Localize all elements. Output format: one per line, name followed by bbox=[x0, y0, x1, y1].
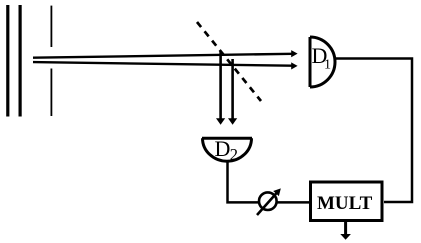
output arrow from MULT bbox=[340, 221, 351, 240]
wire from D1 to MULT (right side) bbox=[335, 59, 412, 203]
phase shifter (circle with diagonal arrow) bbox=[257, 188, 281, 215]
svg-text:1: 1 bbox=[324, 58, 331, 73]
beam ray upper (arrow to D1) bbox=[33, 50, 298, 58]
source plate line 1 bbox=[6, 5, 9, 117]
beam ray lower (arrow to D1) bbox=[33, 62, 298, 69]
svg-text:2: 2 bbox=[230, 145, 238, 164]
slit plate upper segment bbox=[50, 6, 52, 47]
svg-text:MULT: MULT bbox=[317, 193, 373, 214]
wire from D2 to MULT through phase shifter bbox=[228, 160, 310, 202]
slit plate lower segment bbox=[50, 69, 52, 117]
detector D2 (half-disc, flat side top) bbox=[202, 138, 252, 161]
source plate line 2 bbox=[19, 5, 22, 117]
reflected ray arrow 2 (down to D2) bbox=[228, 59, 237, 125]
detector D1 (half-disc, flat side left) bbox=[310, 37, 335, 87]
beam splitter (dashed line) bbox=[197, 22, 261, 101]
reflected ray arrow 1 (down to D2) bbox=[216, 51, 225, 125]
multiplier box MULT bbox=[311, 182, 383, 221]
svg-text:D: D bbox=[215, 136, 231, 161]
